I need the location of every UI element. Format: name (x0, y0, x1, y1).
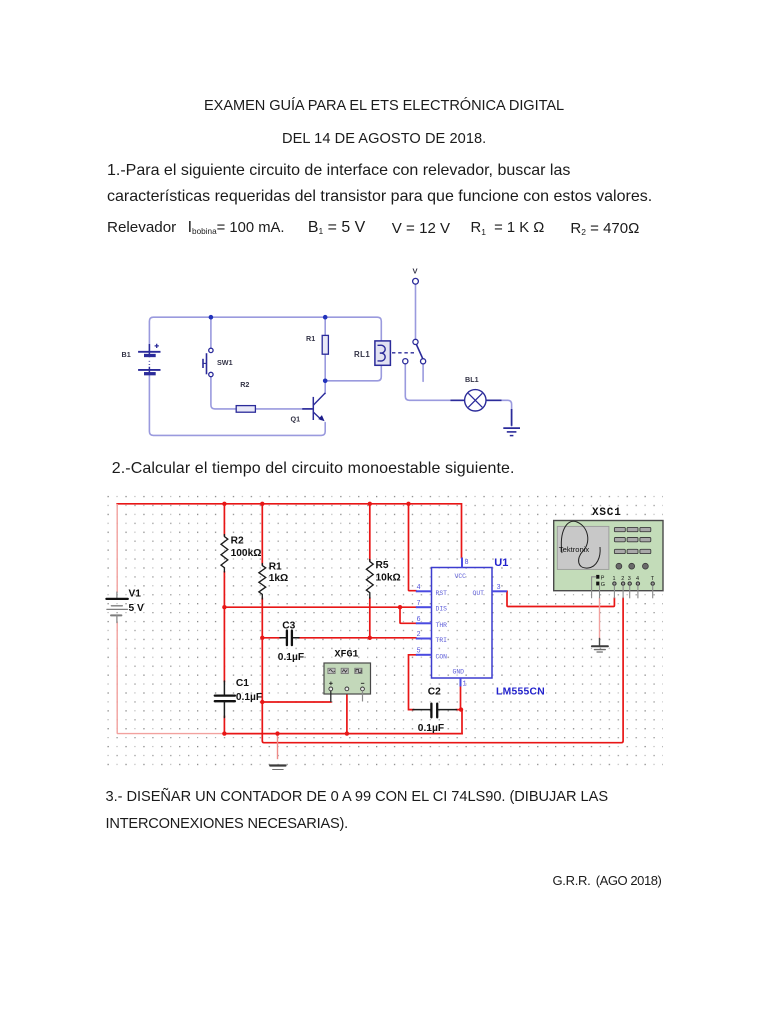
wire V1 negative lead to ground rail (pink) (117, 622, 224, 733)
pin 2 TRI stub (416, 638, 432, 640)
wire R1 column down + bottom output rail + scope ch2 riser (262, 598, 623, 742)
svg-text:THR: THR (436, 622, 448, 629)
scope buttons (614, 527, 650, 553)
pin 1 GND stub (460, 678, 462, 687)
svg-text:10kΩ: 10kΩ (376, 572, 401, 583)
svg-text:Tektronix: Tektronix (559, 545, 590, 554)
wire VCC top rail (117, 504, 461, 558)
svg-text:1: 1 (463, 681, 467, 689)
section 3 line 2 (106, 816, 349, 832)
wire C2 right node to ground rail (457, 710, 463, 734)
wire C1 bottom lead to ground rail (223, 717, 225, 734)
svg-text:RST: RST (436, 590, 448, 597)
relay RL1 coil box (375, 341, 391, 365)
svg-text:BL1: BL1 (465, 375, 479, 384)
ground symbol (scope G) (599, 639, 601, 646)
svg-text:GND: GND (453, 668, 465, 675)
svg-text:0.1µF: 0.1µF (236, 692, 262, 703)
wire SW1 top (210, 317, 212, 347)
node ground rail XFG com (345, 731, 349, 735)
node rail RST (406, 502, 410, 506)
resistor R1 1k zigzag (259, 564, 266, 600)
svg-text:P: P (601, 575, 605, 581)
wire ground stub on rail (277, 734, 279, 759)
wire relay bottom to node (325, 365, 381, 381)
svg-text:XSC1: XSC1 (592, 507, 622, 519)
svg-text:1kΩ: 1kΩ (269, 573, 289, 584)
wire battery loop top (149, 317, 381, 350)
svg-text:R2: R2 (240, 380, 249, 389)
title line 1 (204, 98, 564, 114)
svg-text:0.1µF: 0.1µF (278, 652, 304, 663)
capacitor C2 (413, 709, 430, 711)
relay actuating dashed link (392, 352, 414, 354)
paragraph 1 line 2 (107, 188, 652, 206)
component value labels (129, 536, 445, 734)
switch contact right (421, 359, 426, 364)
svg-text:R5: R5 (376, 560, 389, 571)
svg-text:2: 2 (417, 631, 421, 639)
svg-text:RL1: RL1 (354, 350, 370, 359)
svg-text:V1: V1 (129, 589, 142, 600)
node collector junction (323, 379, 328, 384)
scope P terminal (596, 575, 599, 579)
svg-text:R2: R2 (231, 536, 244, 547)
svg-text:5 V: 5 V (129, 603, 144, 614)
resistor R2 100k zigzag (221, 535, 228, 573)
wire pole right contact stub (422, 364, 424, 381)
wire R2 to Q1 base (255, 408, 303, 410)
wire R1 column top (261, 504, 263, 564)
svg-text:B1: B1 (122, 350, 131, 359)
wire scope G to ground (pink) (599, 598, 601, 638)
wire R5 bottom to TRI row (369, 598, 371, 638)
wire DIS-THR tee (400, 607, 416, 623)
resistor R1 (322, 335, 328, 354)
XFG1 plus lead (330, 691, 332, 702)
node XFG plus row (260, 700, 264, 704)
resistor R2 (236, 406, 255, 413)
paragraph 1 line 1 (107, 162, 570, 180)
node ground rail C1 (222, 731, 226, 735)
node DIS-THR tee (398, 605, 402, 609)
transistor Q1 (302, 393, 325, 420)
svg-text:6: 6 (417, 616, 421, 624)
svg-text:5: 5 (417, 647, 421, 655)
node rail R1 (260, 502, 264, 506)
pin 6 THR stub (416, 622, 432, 624)
resistor R5 10k zigzag (366, 560, 373, 599)
switch contact left (403, 359, 408, 364)
node V terminal (413, 278, 419, 284)
node TRI row R5 (368, 636, 372, 640)
switch pole pivot (413, 339, 418, 344)
switch SW1 (203, 348, 213, 377)
node rail R2 (222, 502, 226, 506)
scope knobs (616, 563, 622, 569)
svg-text:100kΩ: 100kΩ (231, 548, 262, 559)
wire battery loop bottom (149, 374, 325, 435)
node SW1 top junction (209, 315, 214, 320)
capacitor C1 (223, 681, 225, 695)
oscilloscope XSC1 (554, 521, 663, 599)
op-amp U1 LM555CN box (432, 568, 493, 679)
capacitor C3 (280, 637, 286, 639)
svg-text:TRI: TRI (436, 637, 448, 644)
wire lamp to ground (486, 400, 511, 426)
node TRI row C3 left (260, 636, 264, 640)
scope screen sine wave (561, 521, 600, 568)
pin 8 VCC stub (461, 558, 463, 568)
wire XFG1 com to ground rail (346, 692, 348, 734)
node rail R5 (368, 502, 372, 506)
wire V supply to pole (415, 284, 417, 339)
svg-text:CON: CON (436, 653, 448, 660)
svg-text:7: 7 (417, 600, 421, 608)
ground (circuit 1) (503, 428, 520, 436)
svg-text:C1: C1 (236, 678, 249, 689)
svg-text:4: 4 (636, 576, 639, 582)
grid background (107, 495, 663, 766)
wire R1 top (324, 317, 326, 335)
wire pole left contact to lamp (405, 364, 464, 400)
svg-text:OUT: OUT (473, 590, 485, 597)
node R1 top junction (323, 315, 328, 320)
svg-text:U1: U1 (494, 557, 508, 569)
svg-text:V: V (413, 266, 419, 275)
svg-text:DIS: DIS (436, 606, 448, 613)
scope terminal stubs (600, 585, 653, 598)
svg-text:VCC: VCC (455, 573, 467, 580)
svg-text:1: 1 (613, 576, 616, 582)
XFG1 minus lead (dangling) (362, 691, 364, 702)
wire 555 pin1 to C2 right node (460, 686, 462, 710)
node C2 right pin1 (459, 707, 463, 711)
wire DIS row (224, 606, 415, 608)
ground symbol (bottom rail) (270, 764, 285, 766)
svg-text:LM555CN: LM555CN (496, 687, 545, 698)
wire R1 bottom to node (324, 354, 326, 381)
pin 3 OUT stub (492, 590, 507, 592)
wire TRI row right of C3 (299, 637, 416, 639)
wire V1 positive lead (pink) (116, 505, 118, 592)
wire SW1 bottom to R2 (211, 377, 236, 409)
wire R2 column top (223, 504, 225, 535)
pin 5 CON stub (416, 654, 432, 656)
svg-text:8: 8 (465, 559, 469, 567)
pin 7 DIS stub (416, 606, 432, 608)
switch armature (416, 345, 423, 360)
svg-text:4: 4 (417, 584, 421, 592)
wire R2 bottom / C1 top column (223, 572, 225, 682)
battery B1 (138, 344, 160, 374)
XFG1 minus terminal (361, 682, 364, 684)
XFG1 plus terminal (329, 682, 333, 686)
wire RST pin from rail (409, 504, 416, 591)
source V1 battery (116, 592, 118, 598)
svg-text:R1: R1 (269, 561, 282, 572)
svg-text:3: 3 (497, 584, 501, 592)
lamp BL1 (451, 390, 512, 426)
title line 2 (282, 131, 486, 147)
wire CON pin to C2 left (409, 655, 416, 710)
relay values line (107, 219, 176, 236)
svg-text:XFG1: XFG1 (335, 649, 359, 660)
function generator XFG1 (324, 663, 371, 702)
svg-text:SW1: SW1 (217, 358, 233, 367)
XFG1 com terminal (345, 687, 349, 691)
section 2 heading (112, 460, 515, 478)
scope G terminal (596, 582, 599, 586)
signature (553, 873, 591, 888)
wire TRI row left of C3 (262, 637, 280, 639)
svg-text:3: 3 (628, 576, 631, 582)
section 3 line 1 (106, 789, 609, 805)
node DIS row R2 (222, 605, 226, 609)
wire OUT to scope channel 1 (507, 591, 614, 606)
scope channel terminals (613, 582, 655, 585)
node ground rail stub (275, 731, 279, 735)
junction dots (222, 502, 463, 736)
pin 4 RST stub (416, 590, 432, 592)
svg-text:C3: C3 (282, 620, 295, 631)
wire R5 column top (369, 504, 371, 560)
svg-text:R1: R1 (306, 334, 315, 343)
wire ground rail (strong) (224, 733, 462, 735)
wire XFG1 plus row (262, 701, 331, 703)
wire Q1 collector vertical (324, 381, 326, 394)
svg-text:C2: C2 (428, 686, 441, 697)
svg-text:2: 2 (621, 576, 624, 582)
svg-text:G: G (601, 582, 605, 588)
svg-text:0.1µF: 0.1µF (418, 723, 444, 734)
svg-text:Q1: Q1 (291, 414, 301, 423)
